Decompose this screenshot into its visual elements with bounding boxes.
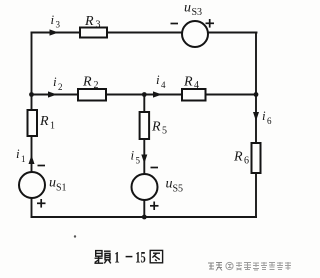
resistor R6	[233, 143, 261, 173]
svg-text:5: 5	[136, 156, 141, 166]
svg-text:S1: S1	[56, 183, 67, 194]
wire middle horizontal	[32, 94, 257, 96]
voltage source uS3	[171, 1, 215, 48]
caption glyph 题	[94, 251, 110, 264]
resistor R2	[78, 75, 106, 101]
svg-text:R: R	[82, 75, 92, 90]
svg-text:R: R	[183, 75, 193, 90]
svg-text:i: i	[131, 148, 135, 163]
svg-text:4: 4	[194, 80, 199, 91]
svg-text:1: 1	[114, 250, 119, 267]
svg-text:S5: S5	[173, 184, 184, 195]
wire right vertical	[255, 33, 257, 218]
wire top horizontal	[32, 32, 257, 34]
svg-text:2: 2	[94, 80, 99, 91]
svg-text:R: R	[84, 14, 94, 29]
svg-text:3: 3	[96, 20, 101, 31]
svg-text:u: u	[49, 176, 56, 191]
svg-text:R: R	[151, 120, 161, 135]
svg-text:i: i	[156, 72, 160, 87]
svg-text:u: u	[184, 1, 191, 16]
node junction middle (144.3,94.5)	[142, 92, 147, 97]
svg-text:1: 1	[21, 154, 26, 164]
svg-text:S3: S3	[192, 7, 203, 18]
svg-text:i: i	[16, 146, 20, 161]
voltage source uS1	[19, 166, 67, 208]
svg-text:6: 6	[267, 116, 272, 126]
svg-text:u: u	[166, 177, 173, 192]
current arrow i4	[153, 72, 166, 98]
svg-text:i: i	[51, 12, 55, 27]
resistor R4	[182, 75, 206, 101]
svg-text:4: 4	[161, 80, 166, 90]
current arrow i2	[48, 74, 63, 98]
wire bottom horizontal	[32, 216, 257, 218]
svg-text:i: i	[53, 74, 57, 89]
node junction right (256,94.5)	[254, 92, 259, 97]
node junction left (31.5,94.5)	[29, 92, 34, 97]
resistor R3	[80, 14, 107, 38]
svg-text:5: 5	[162, 126, 167, 137]
current arrow i5	[131, 148, 148, 166]
svg-text:R: R	[233, 150, 243, 165]
svg-text:2: 2	[58, 82, 63, 92]
voltage source uS5	[132, 168, 184, 211]
node junction bottom (144.3,217)	[142, 215, 147, 220]
svg-text:1: 1	[50, 121, 55, 132]
caption text 1 - 15	[114, 250, 145, 267]
svg-text:R: R	[39, 114, 49, 129]
caption glyph 图	[150, 250, 162, 262]
current arrow i1	[16, 146, 35, 164]
stray speck	[74, 235, 76, 237]
wire middle vertical	[143, 95, 145, 218]
current arrow i6	[253, 108, 272, 126]
svg-text:3: 3	[56, 20, 61, 30]
wire left vertical	[31, 33, 33, 218]
caption dash	[126, 256, 133, 258]
resistor R5	[140, 112, 167, 139]
svg-text:i: i	[262, 108, 266, 123]
current arrow i3	[50, 12, 61, 36]
resistor R1	[28, 110, 56, 136]
svg-text:6: 6	[244, 156, 249, 167]
svg-text:15: 15	[135, 250, 145, 267]
watermark row	[208, 262, 291, 271]
